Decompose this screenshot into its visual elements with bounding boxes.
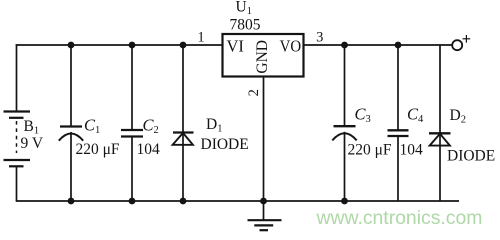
diode D2 <box>429 133 451 145</box>
wire: C3 branch lower lead <box>344 132 346 201</box>
svg-text:DIODE: DIODE <box>447 148 495 165</box>
output terminal + <box>452 35 470 50</box>
svg-text:9 V: 9 V <box>21 135 44 152</box>
wire: D1 branch <box>182 45 184 201</box>
svg-text:3: 3 <box>366 114 371 125</box>
junction dot: C2 bottom node <box>129 198 136 205</box>
junction dot: C4 top node <box>395 42 402 49</box>
svg-text:B1: B1 <box>24 118 40 137</box>
junction dot: C2 top node <box>129 42 136 49</box>
svg-text:2: 2 <box>154 125 159 136</box>
svg-text:3: 3 <box>316 30 323 46</box>
wire: C4 branch upper lead <box>397 45 399 130</box>
wire: D2 branch <box>439 45 441 201</box>
junction dot: C1 bottom node <box>68 198 75 205</box>
capacitor C4 (ceramic) plates <box>388 130 409 136</box>
diode D1 <box>173 133 194 145</box>
svg-text:104: 104 <box>137 141 161 158</box>
wire: U1 GND pin 2 lead <box>263 77 265 202</box>
wire: left rail upper (battery + lead) <box>16 44 18 111</box>
junction dot: C3 top node <box>341 42 348 49</box>
svg-text:1: 1 <box>95 125 100 136</box>
svg-text:VI: VI <box>227 37 244 56</box>
junction dot: C1 top node <box>68 42 75 49</box>
svg-text:www.cntronics.com: www.cntronics.com <box>316 207 483 229</box>
svg-text:U1: U1 <box>236 0 252 17</box>
battery B1 plates <box>4 112 31 167</box>
svg-text:4: 4 <box>418 114 424 125</box>
capacitor C1 (electrolytic) plates <box>59 127 83 141</box>
wire: C4 branch lower lead <box>397 136 399 201</box>
svg-text:220 μF: 220 μF <box>76 141 120 158</box>
wire: C1 branch lower lead <box>70 132 72 201</box>
svg-text:7805: 7805 <box>230 17 261 34</box>
regulator U1 7805 box with pin names <box>223 34 304 77</box>
svg-text:D2: D2 <box>450 107 466 126</box>
junction dot: ground node <box>260 198 267 205</box>
junction dot: D1 top node <box>180 42 187 49</box>
svg-text:1: 1 <box>197 30 204 46</box>
wire: left rail lower (battery - lead) <box>16 166 18 201</box>
svg-text:D1: D1 <box>206 116 222 135</box>
svg-text:2: 2 <box>246 89 262 96</box>
ground symbol <box>248 220 282 230</box>
wire: C2 branch lower lead <box>131 137 133 202</box>
junction dot: C3 bottom node <box>341 198 348 205</box>
svg-text:DIODE: DIODE <box>201 136 249 153</box>
capacitor C2 (ceramic) plates <box>121 130 143 137</box>
wire: top input rail from battery + to U1 VI pin <box>16 44 223 46</box>
svg-text:104: 104 <box>400 142 424 159</box>
svg-text:GND: GND <box>254 40 271 74</box>
wire: ground stub below bottom rail <box>263 201 265 220</box>
wire: C3 branch upper lead <box>344 45 346 126</box>
wire: C1 branch upper lead <box>70 45 72 127</box>
svg-text:220 μF: 220 μF <box>348 142 392 159</box>
wire: C2 branch upper lead <box>131 45 133 130</box>
svg-text:VO: VO <box>280 37 302 56</box>
wire: top output rail from U1 VO pin to + terminal <box>304 44 453 46</box>
wire: bottom ground rail <box>16 200 459 202</box>
junction dot: D1 bottom node <box>180 198 187 205</box>
capacitor C3 (electrolytic) plates <box>332 126 356 140</box>
